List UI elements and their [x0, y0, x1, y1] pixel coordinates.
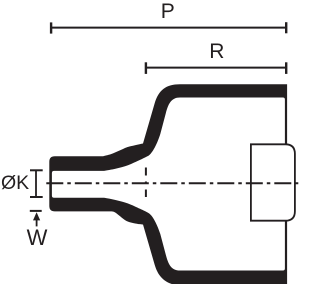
svg-text:ØK: ØK — [1, 172, 29, 194]
svg-text:W: W — [27, 225, 48, 250]
svg-text:R: R — [209, 40, 224, 63]
svg-text:P: P — [161, 0, 175, 23]
